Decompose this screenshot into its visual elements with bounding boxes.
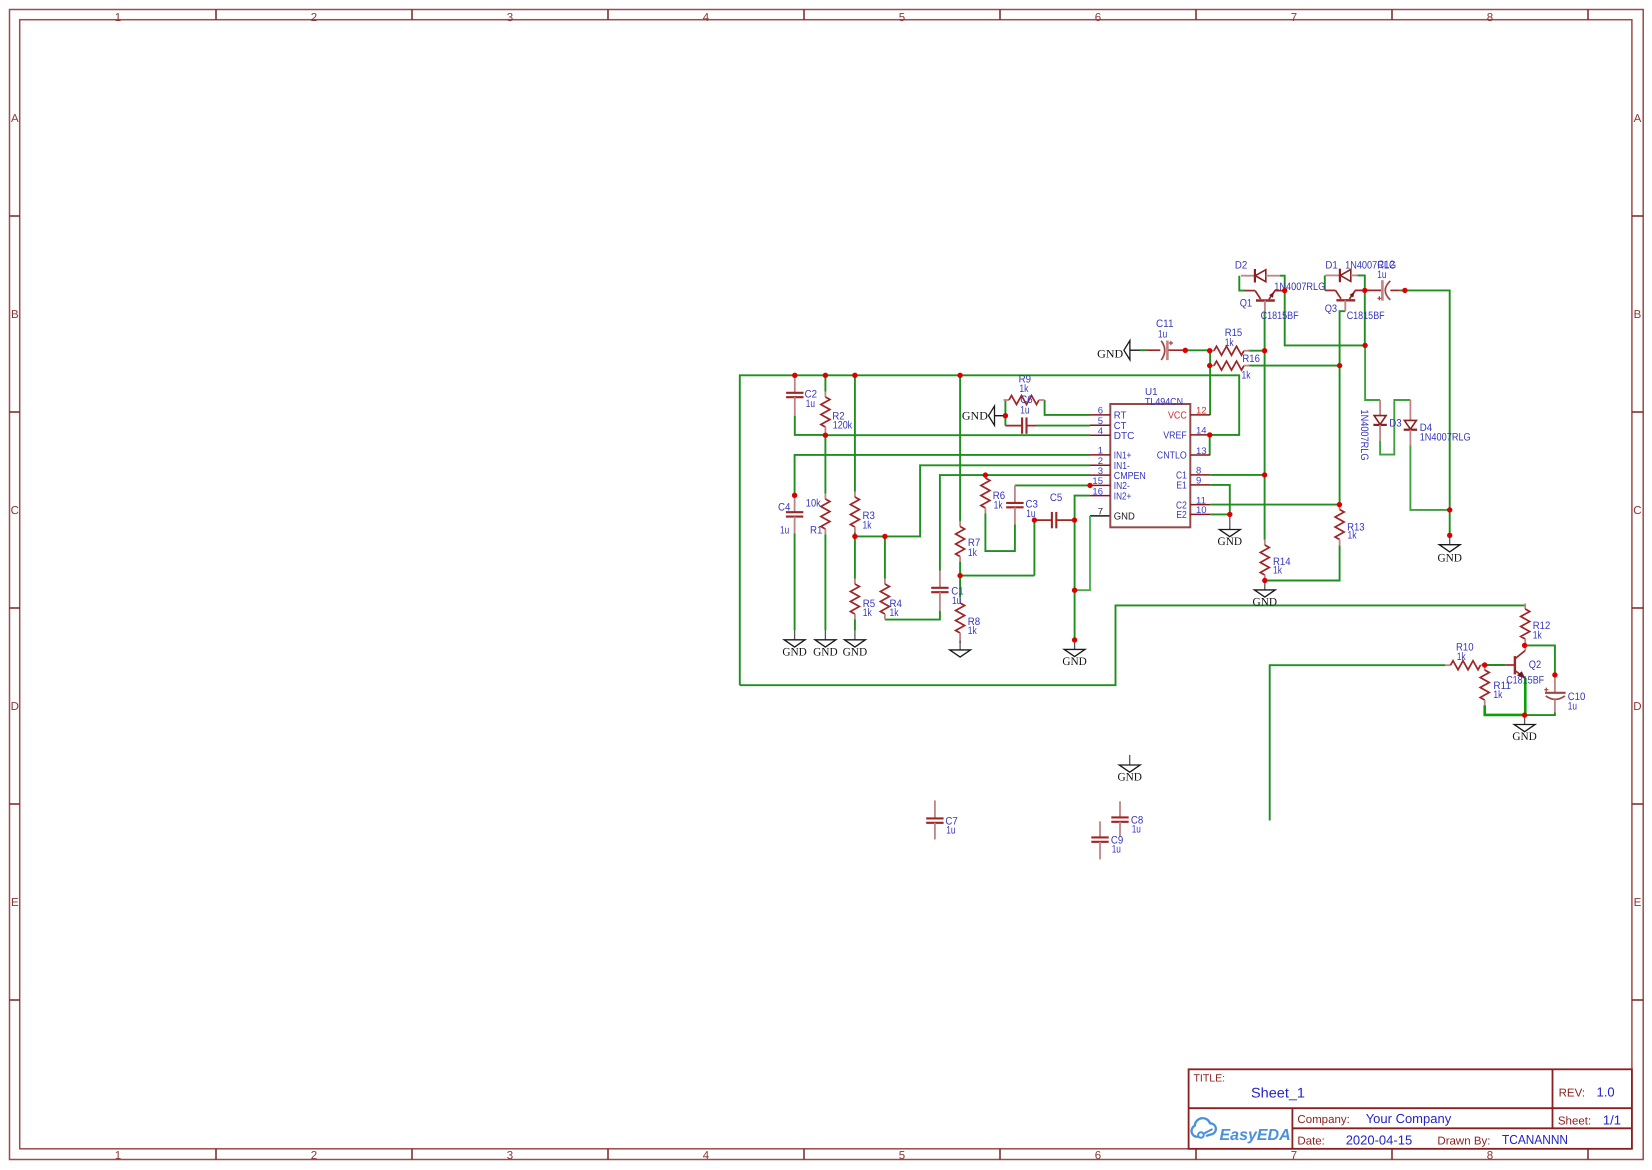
wire IN2+ net: [1075, 496, 1090, 640]
capacitor C7: [926, 800, 958, 839]
capacitor C4: [778, 495, 803, 536]
svg-text:1k: 1k: [1225, 337, 1234, 349]
svg-text:12: 12: [1196, 406, 1207, 417]
junction (1264.8,580.5): [1262, 578, 1267, 583]
svg-text:1: 1: [115, 12, 121, 24]
svg-text:1k: 1k: [1533, 629, 1542, 641]
junction (1090,485.4): [1087, 483, 1092, 488]
wire D2 anode elbow: [1280, 276, 1285, 291]
wire C5 left down: [1033, 520, 1035, 576]
wire Q3 emitter down: [1364, 290, 1366, 345]
junction (794.8,375.3): [792, 373, 797, 378]
GND net flag near C11: [1097, 341, 1140, 361]
resistor R7: [956, 521, 981, 562]
svg-text:C1815BF: C1815BF: [1347, 310, 1385, 322]
svg-text:C4: C4: [778, 502, 790, 514]
svg-text:Q1: Q1: [1240, 298, 1252, 310]
U1 pin 11 C2: [1176, 495, 1210, 511]
svg-text:Company:: Company:: [1297, 1114, 1349, 1126]
svg-text:R16: R16: [1242, 353, 1260, 365]
resistor R14: [1260, 540, 1290, 581]
wire R3 top: [854, 375, 856, 491]
svg-text:TITLE:: TITLE:: [1194, 1073, 1226, 1085]
svg-text:4: 4: [1098, 426, 1103, 437]
ground: [1512, 715, 1537, 743]
svg-text:GND: GND: [1114, 512, 1135, 523]
junction (794.6,495.3): [792, 493, 797, 498]
transistor Q2 C1815BF: [1505, 645, 1544, 686]
ground: [1062, 640, 1087, 668]
svg-text:3: 3: [507, 12, 513, 24]
svg-text:CNTLO: CNTLO: [1157, 451, 1187, 462]
wire Q3 base elbow: [1324, 275, 1326, 290]
svg-text:16: 16: [1092, 486, 1103, 497]
wire R13 bottom to R14 node: [1265, 545, 1340, 580]
junction (1449.7,535.3): [1447, 533, 1452, 538]
svg-text:6: 6: [1098, 406, 1103, 417]
capacitor C12 polarized: [1365, 259, 1400, 301]
wire R2 top: [824, 375, 826, 391]
wire R3 bottom: [854, 532, 856, 536]
op-amp U1 TL494CN PWM controller: [1110, 387, 1190, 527]
U1 pin 9 E1: [1176, 476, 1210, 492]
wire GND pin7 run: [1075, 516, 1090, 590]
svg-text:R1: R1: [810, 525, 822, 537]
svg-text:B: B: [11, 309, 19, 321]
ground: [813, 630, 838, 658]
svg-text:5: 5: [899, 1150, 905, 1162]
svg-text:GND: GND: [1062, 656, 1087, 668]
capacitor C2: [786, 375, 817, 415]
svg-text:1.0: 1.0: [1597, 1085, 1615, 1100]
resistor R9: [1004, 374, 1045, 405]
resistor R1: [806, 494, 830, 537]
junction (1339.4,504.6): [1337, 502, 1342, 507]
wire R7 to R8: [959, 561, 961, 598]
wire C10 bottom to gnd node: [1525, 713, 1555, 716]
svg-text:13: 13: [1196, 446, 1207, 457]
svg-text:1k: 1k: [994, 499, 1003, 511]
capacitor C6: [1005, 394, 1036, 434]
diode D2 1N4007RLG: [1235, 260, 1325, 293]
U1 pin 13 CNTLO: [1157, 446, 1211, 462]
svg-text:1u: 1u: [1020, 404, 1029, 416]
junction (1284.7,290.6): [1282, 288, 1287, 293]
svg-text:1k: 1k: [968, 547, 977, 559]
svg-text:1k: 1k: [863, 607, 872, 619]
svg-text:E1: E1: [1176, 481, 1187, 492]
svg-text:3: 3: [507, 1150, 513, 1162]
ground: [843, 630, 868, 658]
svg-text:GND: GND: [843, 647, 868, 659]
wire R12 node to C10: [1525, 645, 1555, 675]
svg-text:TL494CN: TL494CN: [1145, 397, 1183, 408]
junction (1365.1,345.4): [1362, 343, 1367, 348]
svg-text:6: 6: [1095, 12, 1101, 24]
svg-text:RT: RT: [1114, 411, 1127, 422]
wire D1 anode elbow: [1357, 275, 1365, 290]
U1 pin 4 DTC: [1090, 426, 1134, 442]
junction (1074.6,590.2): [1072, 588, 1077, 593]
junction (1074.6,640): [1072, 637, 1077, 642]
wire Q1 emitter down run: [1285, 291, 1365, 346]
junction (960.1,375.3): [957, 373, 962, 378]
ground: [782, 630, 807, 658]
svg-text:Q3: Q3: [1325, 303, 1337, 315]
svg-text:Date:: Date:: [1297, 1136, 1325, 1148]
ground floating: [1117, 755, 1142, 784]
svg-text:IN2+: IN2+: [1114, 491, 1132, 502]
svg-text:4: 4: [703, 1150, 710, 1162]
svg-text:C1815BF: C1815BF: [1506, 674, 1544, 686]
svg-text:14: 14: [1196, 426, 1207, 437]
U1 pin 1 IN1+: [1090, 446, 1131, 462]
wire C6 right to CT: [1037, 425, 1091, 427]
wire R9 C6 left riser: [1004, 400, 1006, 426]
junction (960.1,575.6): [957, 573, 962, 578]
svg-text:B: B: [1634, 309, 1642, 321]
wire R10 feed: [1270, 665, 1446, 820]
junction (884.9,536.4): [882, 534, 887, 539]
wire emitter join to D3: [1365, 345, 1380, 400]
svg-text:1u: 1u: [1132, 824, 1141, 836]
svg-text:2: 2: [311, 12, 317, 24]
junction (985.4,475.1): [983, 472, 988, 477]
resistor R3: [850, 492, 875, 533]
svg-text:C5: C5: [1050, 492, 1062, 504]
U1 pin 2 IN1-: [1090, 456, 1130, 472]
U1 pin 7 GND: [1098, 507, 1135, 523]
svg-text:1k: 1k: [1457, 651, 1466, 663]
svg-text:5: 5: [899, 12, 905, 24]
svg-text:E2: E2: [1176, 510, 1187, 521]
wire R16 right: [1248, 365, 1340, 367]
svg-text:7: 7: [1291, 12, 1297, 24]
svg-text:1: 1: [1098, 446, 1103, 457]
svg-text:REV:: REV:: [1559, 1088, 1585, 1100]
svg-text:1u: 1u: [952, 595, 961, 607]
wire IN2- net: [1015, 484, 1090, 486]
resistor R2: [821, 392, 853, 433]
ground: [1437, 535, 1462, 564]
svg-text:GND: GND: [1117, 772, 1142, 784]
junction (825.4,375.3): [823, 373, 828, 378]
wire VREF to CNTLO: [1209, 435, 1211, 455]
wire R2 to R1: [824, 435, 826, 493]
resistor R5: [850, 579, 875, 620]
resistor R4: [880, 579, 902, 620]
svg-text:E: E: [1634, 897, 1642, 909]
capacitor C5: [1034, 492, 1074, 529]
svg-text:Sheet:: Sheet:: [1558, 1115, 1591, 1127]
wire R15 right: [1248, 350, 1265, 352]
svg-text:6: 6: [1095, 1150, 1101, 1162]
resistor R10: [1445, 641, 1486, 669]
ground: [1218, 514, 1243, 548]
capacitor C8: [1111, 801, 1143, 836]
wire C12 to gnd rail: [1400, 290, 1450, 535]
U1 pin 3 CMPEN: [1090, 466, 1146, 482]
svg-text:1u: 1u: [1568, 701, 1577, 713]
wire R16 node down to R13: [1339, 366, 1341, 505]
svg-text:D: D: [1633, 701, 1641, 713]
resistor R12: [1521, 604, 1551, 645]
wire IN1- net: [855, 465, 1090, 536]
svg-text:1/1: 1/1: [1603, 1112, 1621, 1127]
svg-text:GND: GND: [782, 647, 807, 659]
resistor R8: [956, 598, 981, 644]
svg-text:GND: GND: [1218, 536, 1243, 548]
svg-text:1k: 1k: [890, 607, 899, 619]
svg-text:1k: 1k: [1273, 565, 1282, 577]
svg-text:GND: GND: [1253, 596, 1278, 608]
wire E2 net: [1210, 513, 1230, 515]
wire R5 top: [854, 536, 856, 578]
junction (1554.9,674.9): [1552, 672, 1557, 677]
wire Q2 base: [1485, 664, 1506, 666]
junction (1074.5,520.1): [1072, 517, 1077, 522]
junction (1264.6,474.9): [1262, 472, 1267, 477]
svg-text:C: C: [1633, 505, 1641, 517]
wire VCC rail left loop: [740, 375, 1239, 685]
svg-text:1k: 1k: [1019, 383, 1028, 395]
svg-text:1N4007RLG: 1N4007RLG: [1358, 410, 1370, 461]
svg-text:1k: 1k: [1348, 530, 1357, 542]
svg-text:C1815BF: C1815BF: [1261, 310, 1299, 322]
svg-text:10k: 10k: [806, 498, 822, 510]
U1 pin 12 VCC: [1168, 406, 1210, 422]
capacitor C9: [1091, 821, 1123, 859]
junction (1524.6,645.4): [1522, 643, 1527, 648]
svg-text:8: 8: [1487, 1150, 1493, 1162]
svg-text:D: D: [11, 701, 19, 713]
svg-text:IN1+: IN1+: [1114, 451, 1132, 462]
wire VCC pin riser: [1209, 351, 1211, 415]
svg-text:Sheet_1: Sheet_1: [1251, 1085, 1305, 1101]
svg-text:GND: GND: [962, 411, 988, 423]
junction (1034.4,520.1): [1032, 517, 1037, 522]
svg-text:120k: 120k: [833, 420, 853, 432]
svg-text:1k: 1k: [863, 519, 872, 531]
transistor Q1 C1815BF: [1240, 291, 1299, 322]
wire R11 bottom to gnd node: [1485, 705, 1525, 715]
junction (1209.7,365.6): [1207, 363, 1212, 368]
svg-text:10: 10: [1196, 505, 1207, 516]
svg-text:Your Company: Your Company: [1366, 1111, 1452, 1126]
capacitor C10 polarized: [1544, 675, 1585, 713]
ground: [1253, 581, 1278, 609]
U1 pin 8 C1: [1176, 466, 1210, 482]
svg-text:1k: 1k: [968, 625, 977, 637]
junction (1185.3,350.3): [1183, 348, 1188, 353]
svg-text:EasyEDA: EasyEDA: [1220, 1127, 1291, 1144]
wire C2 pin11 net: [1210, 504, 1339, 506]
wire R1 bottom: [824, 534, 826, 630]
wire IN1+ net: [795, 455, 1090, 495]
wire D3 to D4 link: [1380, 400, 1410, 455]
wire CMPEN net: [940, 475, 1090, 571]
svg-text:VCC: VCC: [1168, 411, 1187, 422]
svg-text:2020-04-15: 2020-04-15: [1346, 1133, 1413, 1148]
wire R7 top run: [959, 375, 961, 521]
junction (825.4,435.2): [823, 433, 828, 438]
svg-text:9: 9: [1196, 476, 1201, 487]
junction (1449.7,509.9): [1447, 507, 1452, 512]
wire bottom feedback run: [740, 605, 1525, 685]
diode D3 1N4007RLG: [1358, 400, 1402, 461]
svg-text:GND: GND: [813, 647, 838, 659]
U1 pin 15 IN2-: [1090, 476, 1130, 492]
wire E1 net: [1210, 485, 1230, 515]
wire R5 bottom: [854, 619, 856, 630]
junction (1339.6,365.6): [1337, 363, 1342, 368]
U1 pin 6 RT: [1090, 406, 1126, 422]
svg-text:1u: 1u: [1112, 844, 1121, 856]
svg-text:1u: 1u: [806, 398, 815, 410]
svg-text:GND: GND: [1512, 731, 1537, 743]
svg-text:C: C: [11, 505, 19, 517]
wire R15 node down to pin8: [1264, 351, 1266, 475]
resistor R16: [1209, 353, 1260, 381]
junction (1005.4,415.7): [1003, 413, 1008, 418]
diode D4 1N4007RLG: [1404, 400, 1471, 445]
junction (1524.6,715.1): [1522, 712, 1527, 717]
ground: [950, 641, 971, 658]
svg-text:D3: D3: [1389, 417, 1401, 429]
capacitor C11 polarized: [1147, 318, 1186, 360]
svg-text:1k: 1k: [1242, 369, 1251, 381]
svg-text:4: 4: [703, 12, 710, 24]
wire R6 bottom to C3 bottom: [985, 513, 1015, 551]
wire Q3 collector jog: [1340, 311, 1346, 365]
svg-text:7: 7: [1291, 1150, 1297, 1162]
svg-text:1N4007RLG: 1N4007RLG: [1420, 432, 1471, 444]
wire C2 bottom to R2 node: [795, 416, 826, 435]
capacitor C3: [1006, 485, 1038, 524]
wire C11 to R15: [1185, 349, 1209, 351]
resistor R11: [1480, 665, 1511, 706]
svg-text:VREF: VREF: [1163, 431, 1187, 442]
wire R4 bottom to C1: [885, 611, 940, 620]
junction (1209.7,434.9): [1207, 432, 1212, 437]
U1 pin 14 VREF: [1163, 426, 1210, 442]
svg-text:A: A: [11, 113, 19, 125]
wire Q1 base elbow: [1239, 276, 1245, 291]
junction (854.9,536.4): [852, 534, 857, 539]
U1 pin 10 E2: [1176, 505, 1210, 521]
wire C1 pin8 net: [1210, 474, 1264, 476]
junction (1209.7,350.7): [1207, 348, 1212, 353]
svg-text:7: 7: [1098, 507, 1103, 518]
transistor Q3 C1815BF: [1325, 290, 1385, 322]
svg-text:TCANANNN: TCANANNN: [1502, 1132, 1568, 1147]
svg-text:1u: 1u: [1158, 328, 1167, 340]
wire R4 top: [884, 536, 886, 578]
svg-text:1N4007RLG: 1N4007RLG: [1345, 260, 1396, 272]
diode D1 1N4007RLG: [1325, 260, 1396, 283]
wire GND flag1 link: [1140, 349, 1147, 351]
svg-text:1: 1: [115, 1150, 121, 1162]
wire Q2 emitter wire: [1524, 678, 1527, 715]
svg-text:Drawn By:: Drawn By:: [1437, 1136, 1490, 1148]
svg-text:A: A: [1634, 113, 1642, 125]
wire C4 bottom: [794, 533, 796, 630]
resistor R13: [1335, 504, 1365, 545]
title block: [1189, 1069, 1632, 1149]
junction (854.9,375.3): [852, 373, 857, 378]
svg-text:E: E: [11, 897, 19, 909]
svg-text:1u: 1u: [780, 525, 789, 537]
svg-text:1k: 1k: [1493, 689, 1502, 701]
svg-text:GND: GND: [1097, 349, 1123, 361]
wire GND pin7 stub: [1090, 515, 1110, 517]
capacitor C1: [931, 571, 963, 611]
svg-text:GND: GND: [1437, 552, 1462, 564]
svg-text:2: 2: [311, 1150, 317, 1162]
svg-text:DTC: DTC: [1114, 431, 1135, 442]
junction (1484.7,665): [1482, 662, 1487, 667]
svg-text:D1: D1: [1325, 260, 1337, 272]
GND net flag near C6: [962, 406, 1006, 425]
svg-text:Q2: Q2: [1529, 659, 1541, 671]
junction (1229.8,514.4): [1227, 512, 1232, 517]
wire Q1 collector run: [1264, 311, 1266, 350]
junction (1264.6,350.7): [1262, 348, 1267, 353]
wire pin8 node down to R14: [1264, 475, 1266, 540]
svg-text:1u: 1u: [946, 825, 955, 837]
svg-text:8: 8: [1487, 12, 1493, 24]
resistor R15: [1209, 327, 1250, 355]
resistor R6: [981, 473, 1005, 514]
wire DTC net: [825, 434, 1090, 436]
svg-text:D2: D2: [1235, 260, 1247, 272]
U1 pin 16 IN2+: [1090, 486, 1131, 502]
wire D4 bottom to gnd rail: [1410, 445, 1449, 510]
EasyEDA logo: [1191, 1118, 1290, 1144]
wire R7 node to C5: [960, 575, 1034, 577]
U1 pin 5 CT: [1090, 416, 1126, 432]
junction (1364.8,290.4): [1362, 288, 1367, 293]
wire R9 right to RT: [1045, 400, 1090, 415]
junction (1404.9,290.4): [1402, 288, 1407, 293]
